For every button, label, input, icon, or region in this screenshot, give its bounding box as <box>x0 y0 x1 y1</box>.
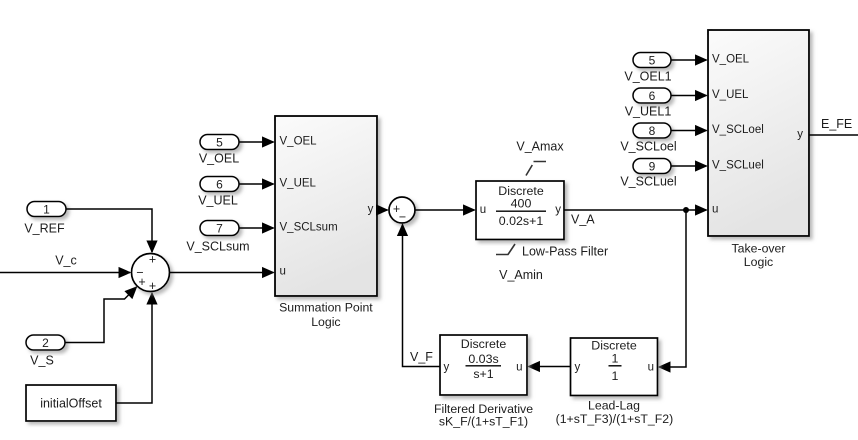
svg-text:s+1: s+1 <box>473 367 493 381</box>
inport 2 <box>26 335 65 350</box>
block initialOffset <box>26 385 116 421</box>
inport 9 <box>633 159 671 174</box>
wire initialOffset to sum1 bottom <box>116 293 152 403</box>
svg-text:y: y <box>797 129 803 141</box>
wire inport5 <box>239 141 274 143</box>
svg-text:5: 5 <box>649 53 656 67</box>
sum block Sum2 <box>389 197 415 224</box>
svg-text:+: + <box>149 279 156 293</box>
inport 1 <box>27 202 66 217</box>
svg-text:V_UEL1: V_UEL1 <box>625 104 672 118</box>
svg-text:u: u <box>516 361 522 373</box>
svg-text:E_FE: E_FE <box>821 117 852 131</box>
svg-text:y: y <box>368 204 374 216</box>
subsystem Take-over Logic <box>708 30 809 236</box>
svg-text:Discrete: Discrete <box>591 339 637 353</box>
block Lead-Lag <box>571 338 658 396</box>
wire inport1 to sum1 top <box>66 209 152 252</box>
svg-text:Logic: Logic <box>744 255 773 269</box>
svg-text:Low-Pass Filter: Low-Pass Filter <box>522 245 608 259</box>
svg-text:V_SCLuel: V_SCLuel <box>712 160 764 172</box>
svg-text:u: u <box>280 265 286 277</box>
svg-text:6: 6 <box>216 177 223 191</box>
svg-text:V_OEL: V_OEL <box>712 54 750 66</box>
svg-text:sK_F/(1+sT_F1): sK_F/(1+sT_F1) <box>439 414 528 428</box>
svg-text:V_UEL: V_UEL <box>712 89 749 101</box>
svg-text:0.02s+1: 0.02s+1 <box>499 214 544 228</box>
wire inport5r <box>671 59 707 61</box>
svg-text:+: + <box>138 275 145 289</box>
svg-text:V_S: V_S <box>30 354 54 368</box>
wire inport7 <box>239 227 274 229</box>
wire inport2 to sum1 diagonal <box>65 287 137 343</box>
svg-text:Take-over: Take-over <box>732 242 786 256</box>
inport 5 <box>200 135 239 150</box>
svg-text:V_F: V_F <box>410 350 433 364</box>
svg-text:V_SCLoel: V_SCLoel <box>712 124 764 136</box>
svg-text:y: y <box>575 361 581 373</box>
svg-text:initialOffset: initialOffset <box>40 397 102 411</box>
svg-text:V_SCLsum: V_SCLsum <box>280 221 338 233</box>
svg-text:V_OEL: V_OEL <box>199 151 239 165</box>
svg-text:V_OEL1: V_OEL1 <box>624 69 671 83</box>
wire inport6 <box>239 183 274 185</box>
wire V_c <box>0 272 130 274</box>
svg-text:(1+sT_F3)/(1+sT_F2): (1+sT_F3)/(1+sT_F2) <box>556 412 674 426</box>
svg-text:V_SCLoel: V_SCLoel <box>620 139 676 153</box>
svg-text:Discrete: Discrete <box>461 337 507 351</box>
block Low-Pass Filter <box>476 181 564 240</box>
svg-text:8: 8 <box>649 124 656 138</box>
svg-text:V_UEL: V_UEL <box>198 193 238 207</box>
wire inport6r <box>671 95 707 97</box>
caption lower saturation glyph + Low-Pass Filter <box>496 244 515 255</box>
svg-text:5: 5 <box>216 135 223 149</box>
block Filtered Derivative <box>440 335 527 395</box>
inport 8 <box>633 123 671 138</box>
inport 7 <box>200 221 239 236</box>
svg-text:7: 7 <box>216 221 223 235</box>
svg-text:u: u <box>648 361 654 373</box>
svg-text:−: − <box>399 210 406 224</box>
svg-text:y: y <box>555 204 561 216</box>
svg-text:1: 1 <box>612 352 619 366</box>
subsystem Summation Point Logic <box>275 116 377 296</box>
inport 5 right <box>633 53 671 68</box>
wire Filtered Derivative y to sum2 bottom <box>403 225 441 367</box>
svg-text:V_Amax: V_Amax <box>516 139 564 153</box>
svg-text:+: + <box>149 253 156 267</box>
svg-text:0.03s: 0.03s <box>468 352 498 366</box>
sum block Sum1 <box>132 253 170 293</box>
wire E_FE output <box>809 134 858 136</box>
wire Lead-Lag y to Filtered Derivative u <box>529 366 571 368</box>
svg-text:1: 1 <box>612 369 619 383</box>
wire y to sum2 <box>377 209 388 211</box>
wire inport9 <box>671 165 707 167</box>
junction <box>683 207 689 213</box>
svg-text:2: 2 <box>42 336 49 350</box>
svg-text:V_OEL: V_OEL <box>280 135 318 147</box>
inport 6 <box>200 177 239 192</box>
svg-text:u: u <box>712 204 718 216</box>
svg-text:V_SCLuel: V_SCLuel <box>620 175 676 189</box>
svg-text:Lead-Lag: Lead-Lag <box>588 399 640 413</box>
svg-text:6: 6 <box>649 89 656 103</box>
wire sum1 to Summation Point Logic u <box>170 272 274 274</box>
wire feedback junction to Lead-Lag u <box>659 210 686 367</box>
svg-text:1: 1 <box>43 202 50 216</box>
svg-text:V_c: V_c <box>55 254 77 268</box>
svg-text:y: y <box>444 361 450 373</box>
svg-text:V_Amin: V_Amin <box>499 268 543 282</box>
svg-text:V_SCLsum: V_SCLsum <box>186 240 249 254</box>
inport 6 right <box>633 88 671 103</box>
svg-text:u: u <box>480 204 486 216</box>
svg-text:V_REF: V_REF <box>24 222 65 236</box>
wire inport8 <box>671 130 707 132</box>
svg-text:V_UEL: V_UEL <box>280 177 317 189</box>
wire V_A to Take-over u <box>564 209 707 211</box>
svg-text:V_A: V_A <box>571 213 595 227</box>
upper saturation glyph <box>526 162 546 176</box>
svg-text:Summation Point: Summation Point <box>279 301 373 315</box>
svg-text:9: 9 <box>649 159 656 173</box>
svg-text:400: 400 <box>511 196 532 210</box>
svg-text:Logic: Logic <box>311 315 340 329</box>
wire sum2 to Low-Pass Filter u <box>415 209 475 211</box>
